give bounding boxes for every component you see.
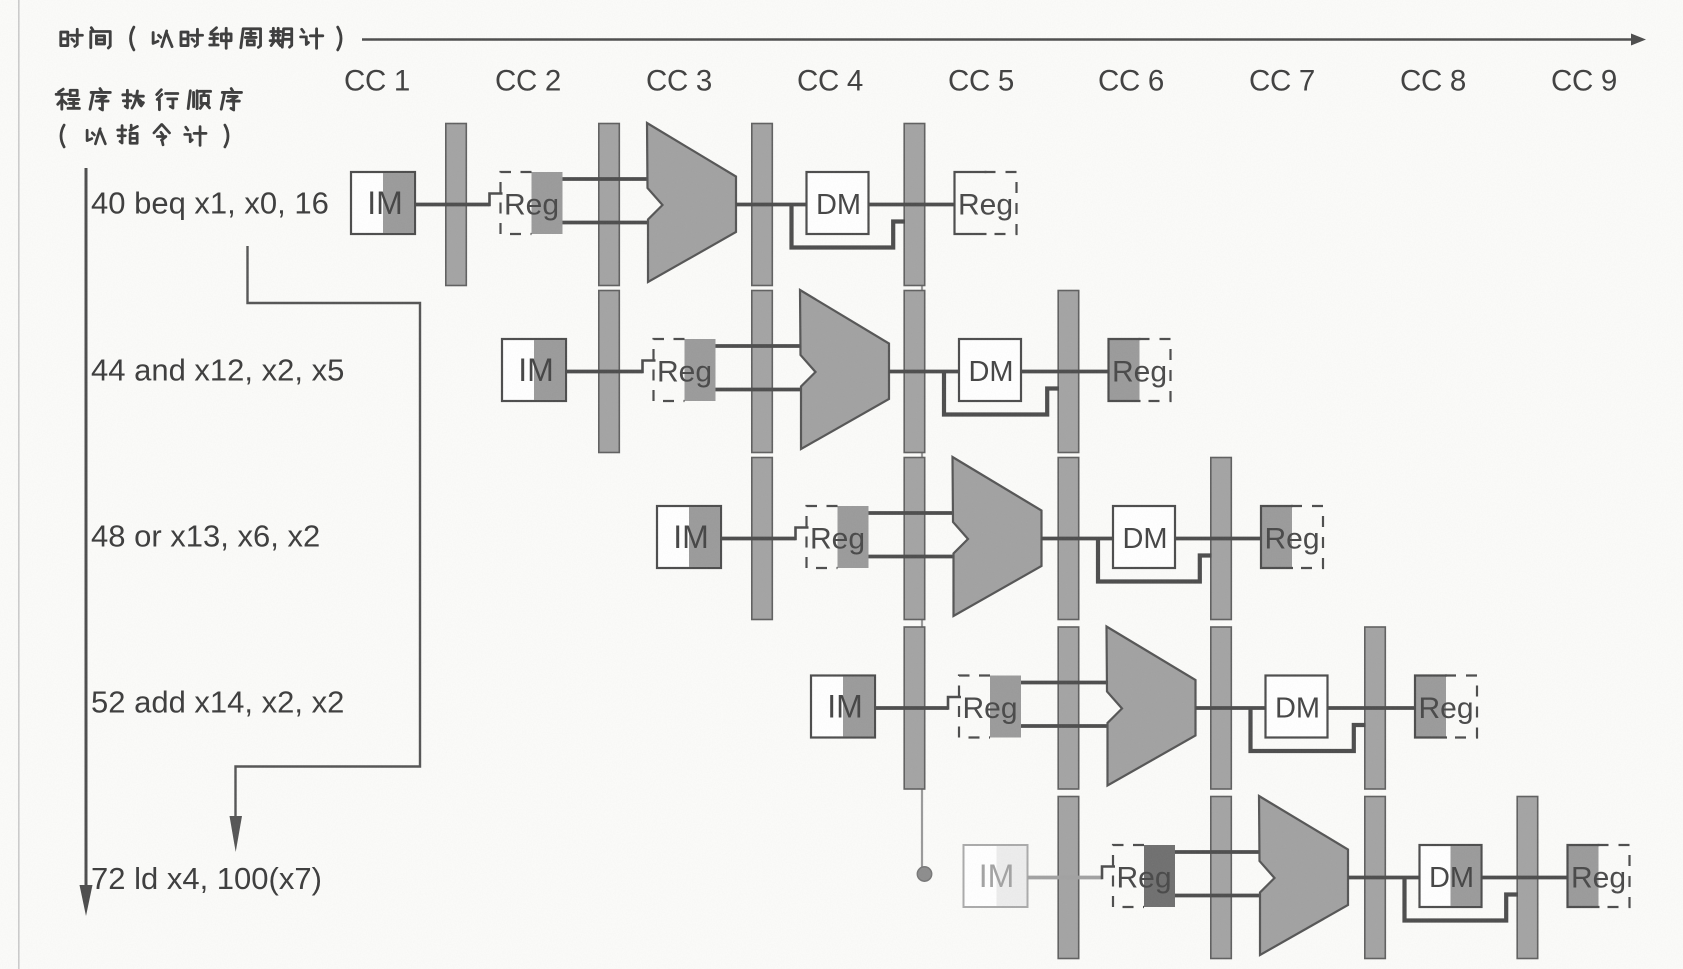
Reg input step bracket row2 (643, 361, 656, 374)
wire Reg to ALU top row5 (1175, 850, 1263, 854)
branch taken path (236, 246, 421, 818)
pipeline register MEM/WB row1 (904, 124, 925, 286)
branch decision line from EX/MEM to fetch (921, 284, 923, 867)
ALU row5 (1259, 796, 1348, 955)
bypass wire under DM row3 (1098, 539, 1212, 582)
ALU row3 (953, 457, 1042, 616)
wire Reg to ALU top row1 (563, 177, 652, 181)
pipeline register ID/EX row5 (1211, 797, 1232, 959)
wire DM to write Reg row1 (869, 203, 955, 207)
IM box row2 (502, 339, 566, 401)
DM box row5 (1420, 845, 1482, 907)
pipeline register MEM/WB row3 (1211, 458, 1232, 620)
wire Reg to ALU bottom row4 (1021, 724, 1111, 728)
pipeline register IF/ID row3 (752, 458, 773, 620)
pipeline register IF/ID row4 (904, 627, 925, 789)
wire DM to write Reg row2 (1021, 370, 1109, 374)
wire IM to Reg row1 (415, 203, 490, 207)
register read box row3 (807, 506, 869, 568)
pipeline register EX/MEM row4 (1211, 627, 1232, 789)
register read box row2 (654, 339, 716, 401)
wire DM to write Reg row5 (1482, 876, 1568, 880)
bypass wire under DM row4 (1251, 708, 1366, 751)
wire IM to Reg row2 (566, 370, 643, 374)
wire Reg to ALU bottom row5 (1175, 894, 1263, 898)
wire IM to Reg row4 (875, 706, 948, 710)
Reg input step bracket row5 (1102, 867, 1115, 880)
register read box row5 (1113, 845, 1175, 907)
wire Reg to ALU bottom row2 (716, 388, 805, 392)
pipeline register EX/MEM row1 (752, 124, 773, 286)
wire IM to Reg row5 (1028, 876, 1103, 880)
ALU row2 (800, 290, 889, 449)
pipeline register EX/MEM row2 (904, 291, 925, 453)
wire ALU to DM row1 (736, 203, 807, 207)
wire IM to Reg row3 (721, 537, 796, 541)
bypass wire under DM row2 (944, 372, 1059, 415)
pipeline register MEM/WB row5 (1517, 797, 1538, 959)
IM box row4 (811, 676, 875, 738)
register write box row4 (1415, 676, 1477, 738)
pipeline register MEM/WB row4 (1365, 627, 1386, 789)
bypass wire under DM row1 (792, 205, 906, 248)
pipeline register IF/ID row2 (599, 291, 620, 453)
register read box row1 (501, 172, 563, 234)
register write box row5 (1568, 845, 1630, 907)
pipeline register ID/EX row1 (599, 124, 620, 286)
wire Reg to ALU bottom row3 (869, 555, 957, 559)
IM box row5 (faded) (964, 845, 1028, 907)
wire Reg to ALU top row4 (1021, 681, 1111, 685)
DM box row3 (1113, 506, 1175, 568)
pipeline register IF/ID row5 (1058, 797, 1079, 959)
DM box row1 (807, 172, 869, 234)
wire Reg to ALU bottom row1 (563, 221, 652, 225)
wire ALU to DM row5 (1348, 876, 1420, 880)
ALU row1 (647, 123, 736, 282)
IM box row1 (351, 172, 415, 234)
Reg input step bracket row4 (948, 697, 961, 710)
branch decision dot (917, 867, 931, 881)
wire Reg to ALU top row3 (869, 511, 957, 515)
ALU row4 (1107, 627, 1196, 786)
pipeline register ID/EX row2 (752, 291, 773, 453)
pipeline register IF/ID row1 (446, 124, 467, 286)
pipeline register ID/EX row4 (1058, 627, 1079, 789)
program order label line 1 (56, 89, 241, 110)
wire DM to write Reg row4 (1328, 706, 1416, 710)
wire ALU to DM row2 (889, 370, 959, 374)
IM box row3 (657, 506, 721, 568)
register read box row4 (959, 676, 1021, 738)
Reg input step bracket row3 (796, 528, 809, 541)
DM box row2 (959, 339, 1021, 401)
bypass wire under DM row5 (1405, 878, 1519, 921)
branch taken path arrowhead (230, 816, 243, 852)
pipeline register MEM/WB row2 (1058, 291, 1079, 453)
wire DM to write Reg row3 (1175, 537, 1261, 541)
time axis arrow (362, 34, 1646, 46)
program order label line 2 (61, 125, 228, 147)
register write box row3 (1261, 506, 1323, 568)
header label: time (in clock cycles) (61, 27, 341, 50)
register write box row2 (1109, 339, 1171, 401)
scan page edge line (18, 0, 20, 969)
DM box row4 (1266, 676, 1328, 738)
wire ALU to DM row4 (1196, 706, 1266, 710)
wire Reg to ALU top row2 (716, 344, 805, 348)
register write box row1 (955, 172, 1017, 234)
program order vertical arrow (80, 168, 93, 916)
pipeline register ID/EX row3 (904, 458, 925, 620)
pipeline register EX/MEM row3 (1058, 458, 1079, 620)
pipeline register EX/MEM row5 (1365, 797, 1386, 959)
Reg input step bracket row1 (490, 194, 503, 207)
scan noise overlay (0, 0, 1, 1)
wire ALU to DM row3 (1042, 537, 1114, 541)
